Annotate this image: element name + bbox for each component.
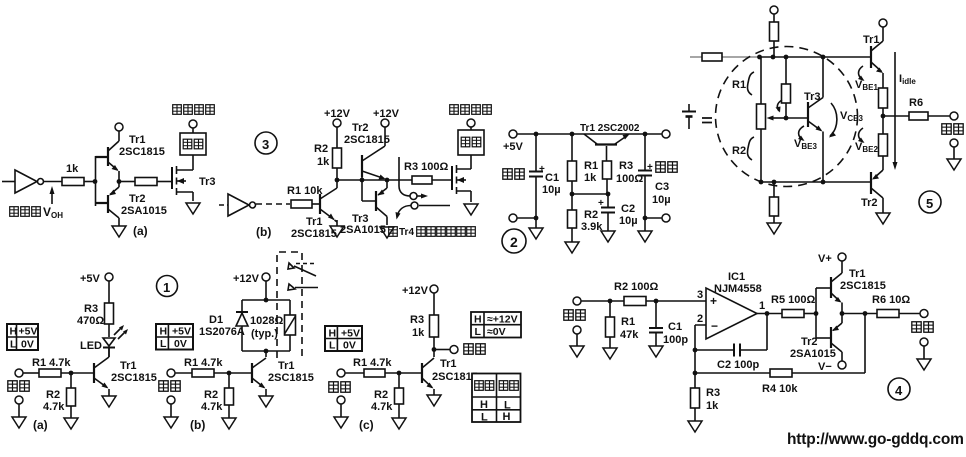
terminal load supply [467, 119, 475, 127]
svg-text:47k: 47k [620, 329, 639, 341]
terminal output 1c [450, 346, 458, 354]
resistor R1 4.7k 1a [23, 357, 71, 377]
ground R2 1c [392, 404, 406, 429]
svg-text:http://www.go-gddq.com: http://www.go-gddq.com [787, 431, 964, 448]
svg-text:Tr3: Tr3 [199, 176, 216, 188]
node C1 top [534, 132, 539, 137]
terminal input 1a [15, 369, 23, 377]
svg-text:10µ: 10µ [652, 194, 671, 206]
wire to Tr3 gate [157, 181, 172, 183]
wire R1 to Tr1 base [312, 203, 320, 205]
node top3 [784, 55, 789, 60]
transistor Tr2 c4 [790, 314, 842, 362]
terminal V+ [818, 253, 846, 265]
label R1 brace [732, 72, 754, 95]
svg-text:+5V: +5V [80, 273, 101, 285]
svg-text:L: L [504, 400, 511, 412]
current I idle [893, 52, 917, 170]
mosfet Tr4 [452, 155, 471, 202]
transistor Tr1 2SC1815 b [291, 180, 337, 240]
node divider [570, 192, 575, 197]
label (b) 1 [190, 418, 205, 432]
inverter U1b [228, 194, 256, 216]
resistor R3 470 [77, 281, 114, 327]
node bases c4 [814, 311, 819, 316]
label vbe2 [855, 128, 878, 154]
node bot2 [772, 180, 777, 185]
resistor gate [135, 178, 157, 186]
wire to loop 1b [265, 281, 267, 300]
svg-text:2: 2 [510, 234, 518, 250]
node top4 [821, 55, 826, 60]
label 输入 1c [329, 382, 350, 392]
resistor R3 1k c4 [691, 373, 721, 412]
terminal +5V input [503, 130, 524, 153]
ground below Tr2 c5 [876, 213, 890, 224]
terminal bottom input [509, 214, 517, 222]
resistor bottom c5 [770, 182, 779, 223]
wire Tr1 emitter to gnd [335, 220, 338, 222]
node 1b [227, 371, 232, 376]
relay coil 1028 [250, 315, 296, 340]
svg-text:L: L [10, 339, 17, 351]
circled 5 [919, 191, 941, 213]
svg-text:4.7k: 4.7k [43, 401, 65, 413]
wire loop to Tr1 1b [265, 351, 267, 357]
svg-text:(typ.): (typ.) [251, 328, 278, 340]
svg-text:4: 4 [895, 383, 903, 398]
svg-text:5: 5 [926, 196, 933, 211]
circled 1 [157, 276, 178, 297]
resistor top-left c5 [702, 53, 722, 61]
svg-text:R2: R2 [374, 389, 388, 401]
ground input 1b [164, 417, 178, 428]
ground input 1c [334, 417, 348, 428]
transistor Tr3 2SA1015 lower [340, 180, 387, 236]
svg-text:Tr2: Tr2 [801, 336, 818, 348]
capacitor C2 100p c4 [695, 344, 759, 372]
svg-text:V+: V+ [818, 253, 832, 265]
node fb c4 [693, 348, 698, 353]
label 输出 c5 [942, 124, 963, 134]
svg-text:R4 10k: R4 10k [762, 383, 798, 395]
capacitor C3 10u [638, 134, 671, 218]
logic table c [472, 374, 521, 424]
svg-text:R6: R6 [909, 97, 923, 109]
svg-text:+12V: +12V [402, 285, 429, 297]
resistor R2 1k [314, 143, 342, 168]
label R2 brace [732, 137, 754, 160]
ground bottom c5 [767, 223, 781, 234]
label 输入 c2 [503, 169, 524, 179]
svg-text:+5V: +5V [503, 141, 524, 153]
svg-text:4.7k: 4.7k [201, 401, 223, 413]
svg-text:R1: R1 [732, 79, 746, 91]
node C3 top [643, 132, 648, 137]
relay contact fixed [288, 284, 318, 290]
svg-text:Tr1: Tr1 [863, 34, 880, 46]
terminal output c5 [950, 112, 958, 120]
svg-text:R3: R3 [84, 303, 98, 315]
transistor Tr2 2SC1815 upper [344, 122, 390, 180]
resistor R6 10 c4 [872, 294, 910, 318]
svg-text:L: L [329, 340, 336, 352]
svg-text:(c): (c) [359, 418, 374, 432]
svg-text:3.9k: 3.9k [581, 221, 603, 233]
ground R2 1b [222, 405, 236, 429]
terminal input low 1b [167, 396, 175, 417]
wire base bus [95, 156, 97, 206]
terminal top tr1 c5 [879, 19, 887, 27]
relay dashed box [277, 252, 302, 358]
svg-text:D1: D1 [209, 314, 223, 326]
node output junction [117, 179, 122, 184]
svg-text:+: + [598, 198, 604, 209]
resistor R2 4.7k 1c [371, 373, 404, 413]
svg-text:+: + [647, 162, 653, 173]
terminal V- [818, 361, 846, 373]
wire +12V to R2 [336, 127, 338, 148]
ground R2 1a [64, 406, 78, 429]
svg-text:Tr2: Tr2 [352, 122, 369, 134]
svg-text:L: L [475, 326, 482, 338]
svg-text:R1: R1 [584, 160, 598, 172]
capacitor C1 100p c4 [649, 301, 688, 346]
resistor R1 1k c2 [568, 134, 599, 184]
terminal input low c4 [573, 326, 581, 334]
node bottom c1 [534, 216, 539, 221]
svg-text:LED: LED [80, 340, 102, 352]
terminal output low c4 [920, 338, 928, 346]
arc vce3 [829, 103, 863, 138]
wire R1 to base 1a [61, 372, 94, 374]
node C1 c4 [654, 299, 659, 304]
node R4 bus [693, 371, 698, 376]
svg-text:3: 3 [697, 289, 703, 301]
svg-text:R2: R2 [732, 145, 746, 157]
capacitor C1 10u [529, 134, 561, 218]
node top2 [771, 55, 776, 60]
terminal +12V 1c [402, 285, 438, 297]
wire R2 to node [336, 168, 338, 180]
label (c) 1 [359, 418, 374, 432]
ground below C3 [638, 218, 652, 242]
terminal +5V a1 [80, 273, 113, 285]
wire R2 to opamp [646, 300, 706, 302]
svg-text:2SC1815: 2SC1815 [432, 371, 478, 383]
led LED [80, 324, 128, 357]
svg-text:1k: 1k [317, 156, 330, 168]
terminal output low c5 [950, 139, 958, 147]
resistor R1 4.7k 1c [345, 357, 392, 377]
label 负荷电压 [173, 105, 215, 115]
label charge text [389, 227, 476, 238]
svg-text:Tr2: Tr2 [861, 197, 878, 209]
relay contact arm [288, 263, 316, 276]
svg-text:H: H [480, 399, 488, 411]
terminal input c4 [573, 297, 581, 305]
svg-text:+5V: +5V [172, 326, 191, 338]
svg-text:100p: 100p [663, 334, 688, 346]
svg-text:R3: R3 [619, 160, 633, 172]
terminal input 1c [337, 369, 345, 377]
svg-text:1028Ω: 1028Ω [250, 315, 283, 327]
svg-text:(b): (b) [256, 225, 271, 239]
resistor R3 100 c2 [603, 160, 644, 185]
transistor Tr2 2SA1015 [96, 182, 167, 227]
ground below Tr3 [186, 203, 200, 214]
wire top bus c5 left [690, 56, 759, 58]
label 高电平VOH [10, 205, 64, 220]
label 输出 c2 [656, 162, 677, 172]
ground output c4 [917, 346, 931, 370]
svg-text:L: L [160, 338, 167, 350]
node base branch [606, 192, 611, 197]
wiper arrow [767, 116, 787, 121]
circled 2 [502, 229, 526, 253]
svg-text:R5 100Ω: R5 100Ω [771, 294, 815, 306]
label 输入 1a [8, 381, 29, 391]
svg-text:470Ω: 470Ω [77, 315, 104, 327]
resistor 1k [62, 163, 84, 186]
wire input to R2 [581, 300, 624, 302]
wire R to node [84, 181, 95, 183]
svg-text:2SA1015: 2SA1015 [121, 205, 167, 217]
wire load to terminal [192, 128, 194, 133]
svg-text:R1 4.7k: R1 4.7k [184, 357, 223, 369]
svg-text:H: H [329, 328, 337, 340]
transistor Tr1 2SC1815 [96, 131, 165, 182]
label vbe1 [855, 66, 878, 92]
wire R6 to terminal c4 [899, 313, 920, 315]
circled 4 [888, 378, 910, 400]
svg-text:1: 1 [759, 300, 765, 312]
wire bottom input [517, 217, 536, 219]
terminal input 1b [167, 369, 175, 377]
svg-text:2SC1815: 2SC1815 [840, 280, 886, 292]
svg-text:H: H [160, 326, 168, 338]
svg-text:C2: C2 [621, 203, 635, 215]
transistor Tr1 1c [422, 358, 478, 395]
transistor Tr2 c5 [861, 170, 883, 213]
transistor Tr1 1a [94, 348, 157, 396]
svg-text:IC1: IC1 [728, 271, 745, 283]
resistor R6 c5 [909, 97, 928, 120]
terminal +12V left [324, 108, 351, 127]
label 输入 1b [159, 381, 180, 391]
wire R4 to output node [792, 314, 865, 373]
label (b) [256, 225, 271, 239]
wire to R4 [695, 372, 770, 374]
wire fb down to R4 bus [694, 350, 696, 373]
svg-text:Tr1: Tr1 [120, 360, 137, 372]
label (a) 1 [33, 418, 48, 432]
annotation arrow VOH [50, 186, 55, 204]
svg-text:R2: R2 [204, 389, 218, 401]
truth table a [7, 324, 38, 351]
node bottom c3 [643, 216, 648, 221]
ground below C1 [529, 218, 543, 239]
resistor R4 10k [762, 369, 798, 395]
wire top bus c5 [759, 56, 871, 58]
terminal +12V 1b [233, 273, 270, 285]
svg-text:≈+12V: ≈+12V [487, 314, 518, 326]
svg-text:0V: 0V [21, 339, 34, 351]
watermark url [787, 431, 964, 448]
svg-text:0V: 0V [343, 340, 356, 352]
node top1 [757, 55, 762, 60]
svg-text:R1 4.7k: R1 4.7k [353, 357, 392, 369]
wire R6 to terminal [928, 115, 950, 117]
terminal input low 1c [337, 396, 345, 417]
wire R5 to bases [804, 313, 816, 315]
svg-text:R2: R2 [46, 389, 60, 401]
ground C1 c4 [649, 346, 663, 357]
wire into inverter b [219, 204, 228, 206]
resistor R5 100 c4 [771, 294, 815, 318]
ground below R2 c2 [565, 228, 579, 253]
svg-text:3: 3 [262, 137, 269, 152]
svg-text:1S2076A: 1S2076A [199, 326, 245, 338]
svg-text:C2 100p: C2 100p [717, 359, 759, 371]
resistor R1 47k c4 [606, 301, 640, 341]
svg-text:2SA1015: 2SA1015 [790, 348, 836, 360]
svg-text:1: 1 [163, 280, 170, 295]
resistor vbe1 [879, 88, 888, 134]
load box 负荷 [180, 133, 206, 155]
wire node to gate resistor [119, 181, 135, 183]
svg-text:R2: R2 [314, 143, 328, 155]
svg-text:R6 10Ω: R6 10Ω [872, 294, 910, 306]
svg-text:V−: V− [818, 361, 832, 373]
node 1a [69, 371, 74, 376]
svg-text:Tr3: Tr3 [804, 91, 821, 103]
svg-text:Tr4: Tr4 [399, 227, 414, 238]
ground below Tr4 [464, 204, 478, 215]
wire bus y180 [337, 179, 412, 181]
node out c5 [881, 114, 886, 119]
ground below Tr2 [112, 226, 126, 237]
node bot3 [821, 180, 826, 185]
resistor R3 1k 1c [410, 293, 439, 339]
transistor Tr1 c4 [816, 261, 886, 314]
wire R3 to node [606, 179, 608, 194]
wire input to inverter [2, 181, 15, 183]
feedback wire down [740, 314, 767, 351]
node R1 c4 [608, 299, 613, 304]
ground below C2 [601, 231, 615, 242]
svg-text:(b): (b) [190, 418, 205, 432]
svg-text:(a): (a) [33, 418, 48, 432]
svg-text:R2: R2 [584, 209, 598, 221]
wire R1 to node194 [571, 181, 573, 194]
ground tr1 1c [427, 395, 441, 406]
truth table b [156, 324, 193, 350]
terminal top c5 [770, 6, 778, 14]
svg-text:L: L [481, 412, 488, 424]
svg-text:2: 2 [697, 313, 703, 325]
resistor R2 100 c4 [614, 281, 658, 306]
svg-text:R1 4.7k: R1 4.7k [32, 357, 71, 369]
dashed wire to R1 [256, 203, 290, 205]
svg-text:(a): (a) [133, 224, 148, 238]
svg-text:C1: C1 [545, 172, 559, 184]
svg-text:2SC1815: 2SC1815 [344, 134, 390, 146]
transistor Tr1 1b [252, 358, 314, 396]
resistor R2 4.7k 1b [201, 373, 234, 413]
resistor top c5 [770, 14, 779, 57]
resistor vbe2 [879, 134, 888, 170]
node 1c [397, 371, 402, 376]
wire divider to base branch [572, 193, 608, 195]
svg-text:2SC1815: 2SC1815 [268, 372, 314, 384]
svg-text:+5V: +5V [19, 326, 38, 338]
wire top bus c2 [517, 133, 662, 135]
node collector junction [335, 178, 340, 183]
svg-text:4.7k: 4.7k [371, 401, 393, 413]
arc vbe3 [794, 126, 817, 151]
wire inverter to R [44, 181, 63, 183]
ground below Tr3 b [380, 227, 394, 238]
equals sign [702, 118, 712, 123]
svg-text:H: H [10, 326, 18, 338]
svg-text:0V: 0V [174, 338, 187, 350]
terminal input low 1a [15, 396, 23, 417]
circled 3 [255, 132, 277, 154]
arc left small [776, 100, 783, 113]
label 输出 1c [464, 344, 485, 354]
svg-text:Tr1: Tr1 [306, 216, 323, 228]
svg-text:Tr1: Tr1 [849, 268, 866, 280]
resistor R1 4.7k 1b [175, 357, 223, 377]
svg-text:+12V: +12V [233, 273, 260, 285]
wire R1 to base 1b [214, 372, 252, 374]
svg-text:Tr1 2SC2002: Tr1 2SC2002 [580, 123, 640, 134]
base bus c4 [815, 288, 817, 338]
wire to R6 [883, 115, 909, 117]
svg-text:≈0V: ≈0V [487, 326, 506, 338]
node emitters c4 [840, 311, 845, 316]
svg-text:1k: 1k [412, 327, 425, 339]
transistor Tr1 c5 [863, 27, 883, 88]
ground below Tr1 b [330, 226, 344, 237]
svg-text:C1: C1 [668, 321, 682, 333]
diode D1 1S2076A [199, 312, 248, 338]
terminal load voltage [189, 120, 197, 128]
diode loop wires [242, 300, 290, 351]
svg-text:Tr2: Tr2 [129, 193, 146, 205]
svg-text:Tr1: Tr1 [440, 358, 457, 370]
terminal output c4 [920, 310, 928, 318]
svg-text:R1: R1 [621, 316, 635, 328]
svg-text:R3: R3 [706, 387, 720, 399]
ground tr1 1a [102, 396, 116, 407]
resistor R2 3.9k [568, 194, 604, 233]
svg-text:Tr1: Tr1 [278, 360, 295, 372]
label 输入 c4 [564, 310, 585, 320]
transistor Tr3 c5 [786, 57, 823, 182]
inverter U1a [15, 170, 44, 193]
svg-text:2SC1815: 2SC1815 [119, 146, 165, 158]
svg-text:1k: 1k [584, 172, 597, 184]
battery symbol [682, 104, 696, 129]
svg-text:+12V: +12V [324, 108, 351, 120]
resistor R3 100 [404, 161, 448, 184]
capacitor C2 10u c2 [598, 194, 638, 231]
node loop bottom [264, 349, 269, 354]
wire load box to terminal b [470, 127, 472, 130]
node base tie [360, 178, 365, 183]
